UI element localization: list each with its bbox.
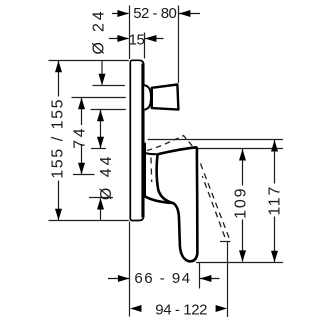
dimension lines & arrows <box>59 14 275 279</box>
stub arrows <box>99 74 106 86</box>
ext line plate front up (V2) <box>144 33 146 59</box>
tick knob-top (L7) <box>93 85 126 87</box>
svg-text:155 / 155: 155 / 155 <box>50 98 67 179</box>
svg-text:74: 74 <box>71 126 88 149</box>
tick 74 bottom (L4) <box>73 174 95 176</box>
tick dashed tip <box>220 241 231 243</box>
arrowheads <box>55 10 278 312</box>
tick d44 top (L5) <box>91 109 126 111</box>
dashed alternate handle outline (rising curve) <box>147 136 193 151</box>
plate front face thick line <box>141 64 144 218</box>
ext line solid tip down (V5) <box>199 263 201 289</box>
ext line dashed tip down (V6) <box>227 242 229 318</box>
117 arrows <box>271 140 278 152</box>
stub down (24 top) <box>101 61 103 85</box>
66-94 dim <box>108 278 129 280</box>
hub top edge <box>144 153 157 154</box>
52-80 dim <box>112 13 129 15</box>
lever blade (solid outline) <box>157 147 198 261</box>
ref line 117 top (L9) <box>148 139 283 141</box>
155 arrows <box>55 61 62 72</box>
ref line 109 top (L10) <box>196 148 283 150</box>
15 dim <box>109 38 129 40</box>
66-94 arrows <box>118 275 130 282</box>
svg-text:Ø 24: Ø 24 <box>90 9 107 55</box>
dashed blade right edge (alt position) <box>201 164 230 239</box>
117 dim stem <box>274 140 276 184</box>
svg-text:117: 117 <box>267 185 284 216</box>
svg-text:94 - 122: 94 - 122 <box>155 301 207 318</box>
svg-text:66 - 94: 66 - 94 <box>134 270 191 287</box>
svg-text:15: 15 <box>129 31 145 48</box>
ext line top-left wall (V1) <box>129 6 131 60</box>
handle hub <box>145 144 173 203</box>
stub up (24 bottom) <box>100 198 102 220</box>
ext line wall down (V4) <box>129 222 131 317</box>
svg-text:109: 109 <box>233 187 250 219</box>
15 arrows <box>117 35 129 42</box>
109 dim stem <box>242 149 244 186</box>
svg-text:52 - 80: 52 - 80 <box>133 5 176 22</box>
thin reference / extension lines <box>49 6 284 318</box>
d44 dim stem <box>100 110 102 149</box>
dimension texts <box>50 5 284 318</box>
74 dim stem <box>81 98 83 126</box>
tick hub-bottom (L8) <box>89 197 113 199</box>
ref line bottom tips (L11) <box>196 262 283 264</box>
tick 155 top (L1) <box>49 60 129 62</box>
tick 155 bottom (L2) <box>49 220 129 222</box>
tick d44 bottom (L6) <box>91 148 106 150</box>
94-122 arrows <box>130 305 142 312</box>
d44 arrows <box>97 110 104 122</box>
sleeve arc <box>144 85 151 109</box>
escutcheon plate (side view) <box>130 60 143 220</box>
knob (trapezoid, side view) <box>152 85 179 110</box>
109 arrows <box>239 149 246 161</box>
dashed hub edge <box>150 158 153 183</box>
tick 74 top (L3) <box>72 97 126 99</box>
svg-text:Ø 44: Ø 44 <box>98 153 115 200</box>
74 arrows <box>78 98 85 110</box>
ext line knob tip up (V3) <box>178 6 180 84</box>
52-80 arrows <box>117 10 129 17</box>
dashed blade left edge (alt position) <box>202 176 225 238</box>
155 dim stem <box>58 61 60 97</box>
